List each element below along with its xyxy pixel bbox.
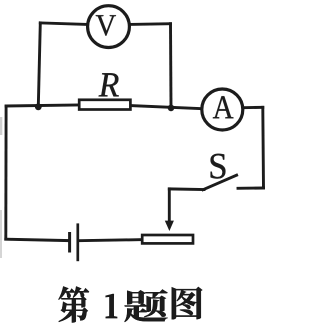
rheostat RP body bbox=[142, 235, 193, 243]
voltmeter U1 circle bbox=[88, 6, 130, 48]
wire: right rail down to switch S bbox=[261, 107, 265, 188]
wire: battery positive to rheostat left terminal bbox=[79, 240, 143, 241]
wire: voltmeter left branch vertical (node A up) bbox=[38, 23, 40, 107]
node B junction dot (right of resistor) bbox=[168, 105, 175, 112]
wire: voltmeter right terminal horizontal bbox=[130, 22, 170, 26]
caption char "第" bbox=[58, 286, 88, 322]
wire: voltmeter right branch vertical down to node B bbox=[169, 24, 172, 108]
switch S blade (open) bbox=[203, 175, 237, 190]
battery cell positive plate (long) bbox=[76, 223, 79, 261]
wire: resistor R right terminal to node B to ammeter bbox=[131, 106, 201, 109]
caption char "图" bbox=[172, 287, 203, 319]
resistor label "R" bbox=[99, 73, 119, 96]
caption char "1" bbox=[106, 294, 117, 318]
wire: voltmeter left branch horizontal to V terminal bbox=[40, 23, 85, 25]
caption char "题" bbox=[125, 290, 168, 323]
battery cell negative plate (short) bbox=[68, 232, 71, 253]
resistor R body bbox=[79, 100, 130, 110]
wire: bottom left, battery negative to left rail bbox=[6, 239, 69, 240]
wire: switch S left lead to rheostat wiper bbox=[169, 187, 204, 191]
ammeter U2 circle bbox=[202, 89, 243, 130]
wire: rheostat wiper lead vertical bbox=[168, 189, 171, 222]
rheostat wiper arrowhead bbox=[165, 221, 174, 231]
ammeter label "A" bbox=[213, 96, 234, 118]
switch label "S" bbox=[211, 154, 226, 179]
node A junction dot (left of resistor) bbox=[35, 103, 42, 110]
wire: switch S fixed contact lead bbox=[238, 187, 264, 190]
wire: main horizontal, node A to resistor R left terminal bbox=[6, 105, 78, 106]
wire: ammeter right terminal to top-right corner bbox=[244, 106, 263, 109]
wire: left rail (battery + to node A) bbox=[4, 106, 7, 239]
voltmeter label "V" bbox=[96, 15, 116, 36]
